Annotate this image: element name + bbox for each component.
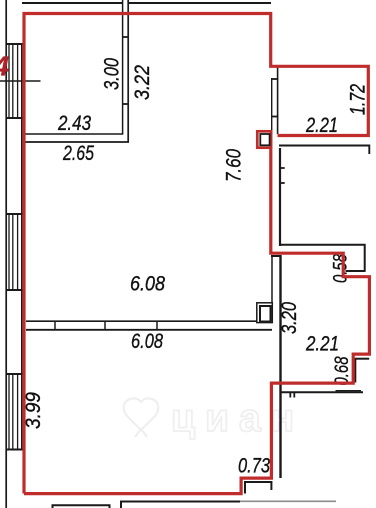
living divider wall top line [26, 320, 257, 322]
window 3 glazing lines [8, 374, 10, 450]
room1 right wall inner line [122, 0, 124, 134]
divider tick 2 [104, 321, 106, 330]
hall/room2 divider wall left line [271, 78, 273, 134]
svg-text:6.08: 6.08 [130, 273, 165, 296]
window 2 bottom tick [6, 289, 23, 291]
room1 bottom wall inner line [24, 133, 123, 135]
shaft inner box [260, 306, 271, 322]
corridor/living wall top tick [271, 255, 281, 257]
bedroom bottom tick b [293, 392, 295, 398]
room2 lower black line [279, 146, 369, 155]
divider tick 1 [54, 321, 56, 330]
niche right black line [364, 244, 366, 272]
svg-text:циан: циан [171, 397, 304, 440]
svg-text:2.21: 2.21 [305, 114, 338, 137]
divider tick 3 [156, 321, 158, 330]
corridor wall door tick a [280, 167, 285, 169]
bedroom bottom black wall [280, 391, 363, 393]
living divider wall bottom line [26, 329, 272, 331]
black box inside red door square [260, 134, 269, 145]
corridor wall door tick b [280, 182, 285, 184]
mid room step black horizontal [355, 358, 370, 360]
door opening black top line [244, 481, 272, 483]
corridor wall vertical [279, 148, 281, 246]
divider tick a [271, 78, 278, 80]
below niche outside black line [336, 390, 362, 392]
corridor/living wall left line [271, 255, 273, 303]
window 1 mid line [0, 80, 41, 82]
window 1 bottom tick [6, 117, 23, 119]
red boundary right path [24, 149, 369, 494]
red door square [257, 131, 271, 147]
door opening black right line [270, 481, 272, 490]
svg-text:3.20: 3.20 [278, 302, 301, 334]
window 3 bottom tick [6, 449, 23, 451]
door opening black left line [244, 481, 246, 494]
svg-text:2.65: 2.65 [62, 142, 94, 165]
room1 right wall tick b [122, 103, 129, 105]
niche top black line [279, 244, 366, 246]
niche bottom black line [346, 270, 366, 272]
room1 right wall tick a [122, 36, 129, 38]
svg-text:0.73: 0.73 [238, 455, 270, 478]
room1 right wall outer line [127, 0, 129, 142]
bottom neighbor rect 1 [53, 505, 110, 508]
watermark logo pin [124, 398, 159, 437]
left exterior wall outer line [5, 0, 7, 508]
svg-text:2.21: 2.21 [305, 333, 339, 356]
svg-text:2.43: 2.43 [57, 112, 91, 135]
svg-text:3.00: 3.00 [101, 58, 124, 90]
window 2 glazing lines [8, 214, 10, 290]
bottom neighbor rect 2 [121, 502, 240, 508]
svg-text:0.58: 0.58 [331, 254, 352, 283]
svg-text:1.72: 1.72 [347, 84, 370, 115]
svg-text:3.22: 3.22 [131, 65, 154, 100]
hall/room2 divider wall right line [277, 67, 279, 134]
svg-text:0.68: 0.68 [332, 356, 353, 385]
top wall line left segment [22, 2, 122, 4]
top wall line right segment [129, 2, 272, 4]
divider tick b [271, 116, 278, 118]
left exterior wall inner line [21, 43, 23, 450]
shaft outer box [257, 303, 273, 323]
corridor/living wall right line [279, 255, 281, 478]
svg-text:4: 4 [0, 51, 10, 82]
room1 bottom wall outer line [24, 141, 129, 143]
bottom gray line [238, 500, 337, 502]
window 1 top tick [6, 43, 23, 45]
mid room step black vertical [354, 358, 356, 383]
bedroom bottom tick a [289, 392, 291, 398]
svg-text:6.08: 6.08 [131, 330, 163, 353]
window 1 glazing lines [8, 44, 10, 118]
window 3 top tick [6, 373, 23, 375]
window 2 top tick [6, 213, 23, 215]
svg-text:7.60: 7.60 [223, 149, 246, 182]
